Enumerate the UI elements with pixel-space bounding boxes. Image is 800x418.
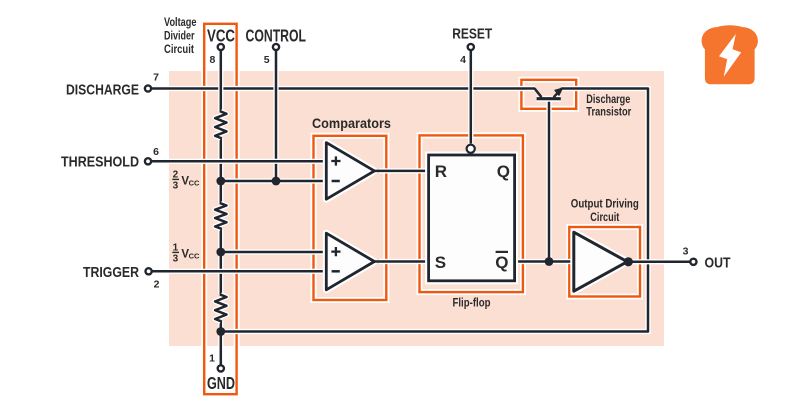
annotation: Output Driving Circuit [571,197,639,225]
terminal pin 5 CONTROL [273,44,279,50]
svg-text:Voltage: Voltage [164,17,197,29]
flip-flop reset inverting bubble [467,145,475,153]
svg-text:8: 8 [210,54,216,66]
svg-text:Q: Q [497,162,510,181]
svg-text:Q: Q [495,253,508,272]
svg-text:Transistor: Transistor [586,105,631,119]
wire: Q-bar output to buffer [515,259,575,264]
svg-text:DISCHARGE: DISCHARGE [66,81,139,98]
svg-text:Divider: Divider [164,30,195,42]
svg-text:OUT: OUT [705,254,731,271]
flip-flop pin label S [435,253,446,272]
IC body (peach background) [169,71,664,346]
svg-text:THRESHOLD: THRESHOLD [61,154,139,171]
wire: 2/3 Vcc to comparator 1 minus [221,178,327,183]
svg-text:Output Driving: Output Driving [571,197,639,211]
wire: comparator 2 output to S [373,259,429,264]
output buffer amplifier triangle [574,232,628,291]
logo: Circuit Bread toast [702,25,758,84]
flip-flop pin label R [435,162,447,181]
pin number 8 [210,54,216,66]
svg-text:VCC: VCC [207,26,235,46]
flip-flop pin label Q [497,162,510,181]
label THRESHOLD [61,154,139,171]
discharge transistor orange box [521,80,576,109]
label GND [207,373,235,393]
label CONTROL [246,26,307,46]
label OUT [705,254,731,271]
terminal pin 1 GND [218,365,224,371]
pin number 1 [209,352,215,364]
wire: emitter to right rail down to ground rail [221,89,648,332]
junction node divider bottom / ground rail [216,327,225,336]
svg-text:CC: CC [189,252,200,261]
pin number 5 [264,54,270,66]
svg-text:4: 4 [460,54,466,66]
wire: transistor base vertical [546,99,551,262]
svg-text:6: 6 [153,146,159,158]
comparators orange box [314,136,387,300]
wire: buffer output to OUT pin [628,259,690,264]
label TRIGGER [83,264,139,281]
label 1/3 Vcc [172,243,200,265]
svg-text:Circuit: Circuit [164,44,194,56]
svg-text:5: 5 [264,54,270,66]
svg-text:Comparators: Comparators [312,116,391,131]
svg-text:GND: GND [207,373,235,393]
label RESET [452,26,492,43]
pin number 6 [153,146,159,158]
svg-text:R: R [435,162,447,181]
flip-flop orange box [420,135,523,292]
output driving circuit orange box [569,227,640,297]
svg-text:S: S [435,253,446,272]
annotation: Discharge Transistor [586,92,631,119]
resistor R3 [215,295,226,321]
wire: control vertical [273,51,278,181]
wire: trigger to comparator 2 minus [152,269,327,274]
resistor R1 [215,112,226,138]
label 2/3 Vcc [172,170,200,192]
resistor R2 [215,203,226,228]
junction dot at buffer output [624,257,633,266]
pin number 3 [683,246,689,258]
terminal pin 3 OUT [690,259,696,265]
annotation: Flip-flop [453,296,491,310]
op-amp comparator 2 (trigger) [326,233,374,290]
terminal pin 2 TRIGGER [146,268,152,274]
junction node control on 2/3 line [272,177,281,186]
svg-text:Circuit: Circuit [590,210,619,224]
label DISCHARGE [66,81,139,98]
pin number 7 [153,72,159,84]
svg-text:TRIGGER: TRIGGER [83,264,139,281]
svg-text:3: 3 [173,181,179,192]
junction node 2/3 Vcc on divider [216,177,225,186]
svg-text:3: 3 [683,246,689,258]
svg-text:3: 3 [173,254,179,265]
pin number 2 [154,279,160,291]
svg-text:CONTROL: CONTROL [246,26,307,46]
svg-text:CC: CC [189,179,200,188]
terminal pin 7 DISCHARGE [145,85,151,91]
flip-flop U1 body [429,155,515,281]
junction node 1/3 Vcc on divider [216,248,225,257]
wire: comparator 1 output to R [373,168,429,173]
wire: discharge line left of transistor [152,86,535,91]
flip-flop pin label Q-bar [495,252,508,272]
svg-text:7: 7 [153,72,159,84]
svg-text:RESET: RESET [452,26,492,43]
terminal pin 8 VCC [218,44,224,50]
svg-text:2: 2 [154,279,160,291]
wire: threshold to comparator 1 plus [152,159,327,164]
svg-text:Flip-flop: Flip-flop [453,296,491,310]
voltage divider circuit orange box [204,24,236,394]
wire: VCC chain segments [218,51,223,365]
annotation: Comparators [312,116,391,131]
wire: 1/3 Vcc to comparator 2 plus [221,249,327,254]
transistor Q1 discharge transistor symbol [535,88,563,99]
junction node Q-bar / base line [545,257,554,266]
svg-text:1: 1 [209,352,215,364]
terminal pin 6 THRESHOLD [145,158,151,164]
pin number 4 [460,54,466,66]
terminal pin 4 RESET [468,44,474,50]
annotation: Voltage Divider Circuit [164,17,197,56]
op-amp comparator 1 (threshold) [326,143,374,200]
label VCC [207,26,235,46]
wire: reset vertical [468,51,473,144]
